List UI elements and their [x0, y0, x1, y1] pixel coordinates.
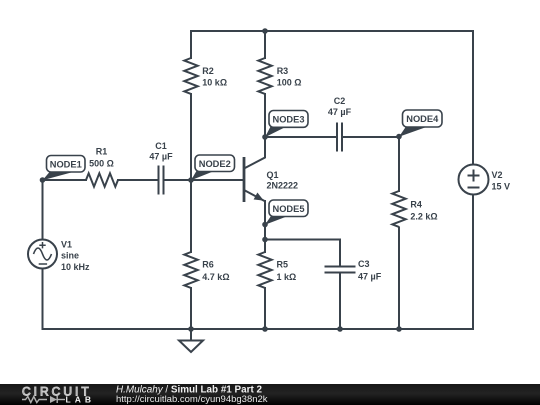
node NODE5 junction: [262, 222, 268, 228]
ground: [179, 329, 203, 352]
svg-text:47 µF: 47 µF: [358, 272, 382, 282]
svg-text:500 Ω: 500 Ω: [89, 159, 114, 169]
svg-text:100 Ω: 100 Ω: [277, 78, 302, 88]
svg-text:NODE4: NODE4: [406, 114, 439, 124]
wire right rail upper: [472, 31, 474, 165]
svg-text:10 kHz: 10 kHz: [61, 262, 90, 272]
wire bottom rail: [43, 328, 474, 330]
wire C2 to node4: [343, 136, 400, 138]
node NODE2: [191, 155, 235, 180]
svg-text:47 µF: 47 µF: [328, 107, 352, 117]
resistor R5: [258, 252, 271, 288]
wire node2 down to R6: [190, 180, 192, 252]
wire R1 to C1: [118, 179, 158, 181]
wire input to R1: [43, 179, 87, 181]
node emitter branch junction: [262, 237, 268, 243]
transistor Q1: [244, 137, 298, 202]
node R4 bottom junction: [396, 326, 402, 332]
node C3 bottom junction: [337, 326, 343, 332]
wire right rail lower: [472, 195, 474, 330]
node R5 bottom junction: [262, 326, 268, 332]
resistor R4: [392, 191, 405, 227]
wire R5 to bottom rail: [264, 288, 266, 329]
svg-text:NODE1: NODE1: [50, 159, 82, 169]
svg-text:NODE5: NODE5: [272, 204, 304, 214]
node ground junction: [188, 326, 194, 332]
resistor R6: [184, 252, 197, 288]
svg-text:C1: C1: [155, 141, 167, 151]
svg-text:R6: R6: [202, 260, 214, 270]
svg-text:R2: R2: [202, 66, 214, 76]
wire left column lower: [42, 269, 44, 330]
wire C3 bottom: [339, 273, 341, 330]
wire R3 column top: [264, 31, 266, 58]
node NODE1 junction: [40, 177, 46, 183]
node NODE1: [43, 156, 86, 181]
node top rail junction: [262, 28, 268, 34]
svg-text:47 µF: 47 µF: [149, 152, 173, 162]
svg-text:http://circuitlab.com/cyun94bg: http://circuitlab.com/cyun94bg38n2k: [116, 394, 268, 405]
svg-text:2.2 kΩ: 2.2 kΩ: [410, 212, 437, 222]
node NODE3: [265, 111, 308, 138]
svg-text:V2: V2: [492, 170, 503, 180]
capacitor C3: [325, 267, 356, 273]
voltage source V1: [28, 240, 90, 273]
svg-text:10 kΩ: 10 kΩ: [202, 78, 227, 88]
svg-text:NODE2: NODE2: [199, 159, 231, 169]
resistor R3: [258, 58, 271, 94]
footer bar: [0, 384, 540, 405]
svg-text:C2: C2: [334, 96, 346, 106]
svg-text:C3: C3: [358, 259, 370, 269]
resistor R1: [86, 173, 118, 186]
svg-text:Q1: Q1: [267, 170, 279, 180]
svg-text:R4: R4: [410, 200, 422, 210]
wire R6 to bottom rail: [190, 288, 192, 329]
wire R2 column bottom: [190, 94, 192, 180]
svg-text:LAB: LAB: [66, 395, 95, 405]
node NODE4: [399, 110, 442, 137]
svg-text:1 kΩ: 1 kΩ: [277, 272, 297, 282]
svg-text:2N2222: 2N2222: [267, 181, 299, 191]
svg-text:R3: R3: [277, 66, 289, 76]
wire emitter down: [264, 201, 266, 252]
svg-text:V1: V1: [61, 240, 72, 250]
svg-text:R1: R1: [96, 147, 108, 157]
svg-text:R5: R5: [277, 260, 289, 270]
capacitor C1: [159, 166, 164, 195]
wire left column upper: [42, 180, 44, 240]
wire node4 down to R4: [398, 137, 400, 191]
node NODE4 junction: [396, 134, 402, 140]
node NODE2 junction: [188, 177, 194, 183]
wire R4 to bottom rail: [398, 228, 400, 330]
resistor R2: [184, 58, 197, 94]
node NODE3 junction: [262, 134, 268, 140]
svg-text:4.7 kΩ: 4.7 kΩ: [202, 272, 229, 282]
svg-text:NODE3: NODE3: [272, 115, 304, 125]
capacitor C2: [337, 123, 342, 152]
wire C3 top: [339, 240, 341, 267]
wire C1 to base: [164, 179, 244, 181]
node NODE5: [265, 200, 308, 225]
voltage source V2: [459, 165, 511, 195]
wire node5 branch to C3: [265, 239, 340, 241]
wire top rail: [191, 30, 473, 32]
wire node3 to C2: [265, 136, 337, 138]
wire R3 to collector node: [264, 94, 266, 137]
svg-text:sine: sine: [61, 251, 79, 261]
wire R2 column top: [190, 31, 192, 58]
svg-text:15 V: 15 V: [492, 182, 511, 192]
